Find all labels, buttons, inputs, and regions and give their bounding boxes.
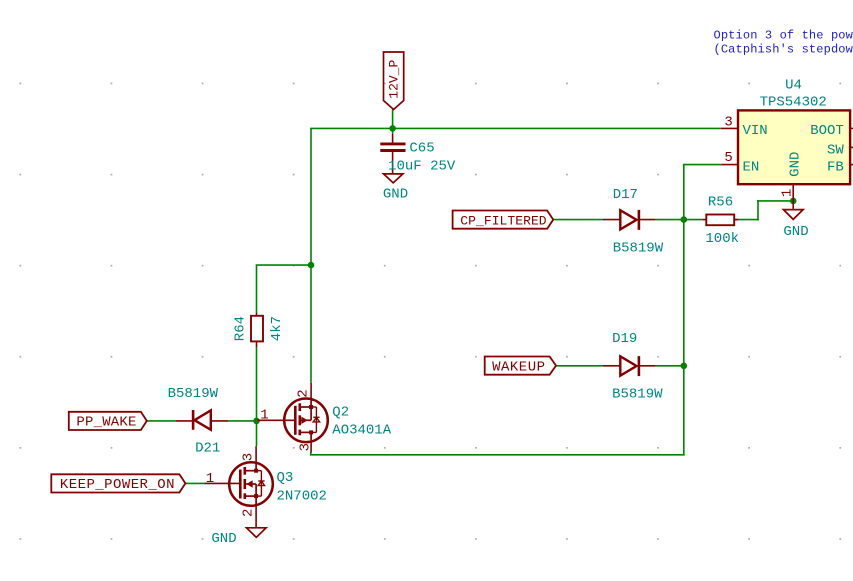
- svg-text:SW: SW: [827, 142, 844, 158]
- wire CP_FILTERED to D17: [553, 219, 603, 221]
- wire R64 top: [256, 265, 258, 313]
- wire VIN top rail: [310, 127, 721, 129]
- ground below Q3: [211, 528, 266, 547]
- svg-text:10uF 25V: 10uF 25V: [388, 159, 456, 175]
- wire D17 to node: [656, 219, 684, 221]
- U4 pin FB: [827, 159, 853, 175]
- wire Q2 drain to EN net bottom: [310, 452, 312, 455]
- capacitor C65: [380, 134, 456, 175]
- global label WAKEUP: [485, 357, 556, 376]
- transistor Q2 AO3401A (PMOS): [284, 399, 328, 443]
- svg-text:U4: U4: [785, 78, 802, 94]
- global label CP_FILTERED: [453, 211, 554, 229]
- transistor Q3 2N7002 (NMOS): [229, 462, 273, 506]
- Q2 pin 2 stub (source, top): [310, 383, 312, 399]
- junction 12V rail / C65: [389, 125, 396, 132]
- svg-text:GND: GND: [383, 186, 408, 202]
- svg-text:KEEP_POWER_ON: KEEP_POWER_ON: [60, 477, 175, 493]
- power symbol 12V_P: [384, 52, 404, 110]
- diode D21 B5819W: [168, 386, 229, 457]
- svg-text:100k: 100k: [705, 231, 739, 247]
- wire branch to R64: [256, 264, 312, 266]
- svg-text:R56: R56: [708, 195, 733, 211]
- wire WAKEUP to D19: [556, 365, 603, 367]
- svg-text:Option 3 of the power supply: Option 3 of the power supply: [714, 29, 853, 43]
- svg-text:B5819W: B5819W: [168, 386, 219, 402]
- svg-text:GND: GND: [783, 224, 808, 240]
- svg-text:AO3401A: AO3401A: [332, 422, 391, 438]
- diode D19 B5819W: [603, 331, 663, 403]
- Q3 pin 2 stub (source, bottom): [255, 506, 257, 528]
- svg-text:TPS54302: TPS54302: [760, 94, 827, 110]
- global label KEEP_POWER_ON: [51, 474, 185, 493]
- svg-text:BOOT: BOOT: [810, 123, 844, 139]
- svg-text:4k7: 4k7: [269, 316, 285, 341]
- Q3 gate pin: [205, 482, 242, 484]
- svg-text:VIN: VIN: [743, 123, 768, 139]
- wire EN net to EN pin: [683, 164, 721, 166]
- svg-text:EN: EN: [743, 159, 760, 175]
- svg-text:D19: D19: [612, 331, 637, 347]
- svg-text:GND: GND: [787, 152, 803, 177]
- junction U4 GND pin: [790, 198, 797, 205]
- U4 pin SW: [827, 142, 853, 158]
- Q2 pin 3 stub (drain, bottom): [310, 442, 312, 452]
- svg-text:2N7002: 2N7002: [277, 489, 327, 505]
- svg-text:R64: R64: [233, 316, 249, 341]
- Q3 pin 3 stub (drain, top): [255, 446, 257, 462]
- wire 12V_P drop: [392, 110, 394, 135]
- svg-text:Q2: Q2: [332, 404, 349, 420]
- svg-text:C65: C65: [409, 141, 434, 157]
- U4 pin 5 EN: [721, 150, 759, 175]
- svg-text:1: 1: [206, 471, 214, 487]
- svg-text:B5819W: B5819W: [612, 387, 663, 403]
- svg-text:WAKEUP: WAKEUP: [492, 359, 545, 375]
- wire R64 bottom to Q3 drain: [256, 347, 258, 446]
- ground below C65: [383, 174, 408, 203]
- svg-text:3: 3: [298, 443, 314, 451]
- svg-text:(Catphish's stepdown converter: (Catphish's stepdown converter): [714, 42, 853, 56]
- svg-text:1: 1: [260, 408, 268, 424]
- resistor R64 4k7: [233, 313, 286, 347]
- svg-text:D17: D17: [613, 187, 638, 203]
- U4 pin 1 GND: [780, 152, 804, 209]
- svg-text:D21: D21: [195, 441, 220, 457]
- Q2 gate pin: [257, 419, 296, 421]
- wire R56 to GND junction: [734, 219, 759, 221]
- junction EN net / D19: [681, 363, 688, 370]
- svg-text:Q3: Q3: [277, 470, 294, 486]
- U4 pin BOOT: [810, 123, 853, 139]
- junction PP_WAKE / R64 / Q3: [253, 418, 260, 425]
- svg-text:5: 5: [724, 150, 732, 166]
- ground below U4: [783, 210, 808, 240]
- junction R64 branch: [308, 262, 315, 269]
- svg-text:2: 2: [241, 509, 257, 517]
- svg-text:FB: FB: [827, 159, 844, 175]
- wire PP_WAKE to D21: [147, 420, 176, 422]
- global label PP_WAKE: [69, 412, 147, 431]
- wire D21 to node: [228, 420, 257, 422]
- svg-text:B5819W: B5819W: [613, 241, 664, 257]
- svg-text:12V_P: 12V_P: [386, 60, 401, 99]
- svg-text:1: 1: [780, 189, 796, 197]
- wire node to R56: [684, 219, 703, 221]
- svg-text:PP_WAKE: PP_WAKE: [76, 415, 136, 431]
- U4 pin 3 VIN: [721, 115, 768, 139]
- wire KEEP_POWER_ON to Q3 gate: [185, 482, 204, 484]
- wire EN net vertical: [683, 165, 685, 455]
- svg-text:CP_FILTERED: CP_FILTERED: [460, 213, 547, 228]
- diode D17 B5819W: [603, 187, 664, 257]
- junction EN net / D17 / R56: [681, 216, 688, 223]
- svg-text:3: 3: [241, 453, 257, 461]
- wire D19 to node: [656, 365, 684, 367]
- svg-text:GND: GND: [211, 531, 236, 547]
- svg-text:2: 2: [295, 389, 311, 397]
- wire vertical from top rail down to Q2 source: [310, 128, 312, 383]
- op-amp U4 TPS54302 regulator body: [738, 110, 850, 184]
- resistor R56 100k: [703, 195, 739, 248]
- svg-text:3: 3: [724, 115, 732, 131]
